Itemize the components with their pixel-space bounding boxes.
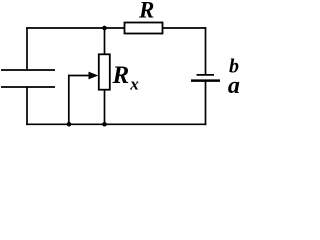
capacitor C top plate xyxy=(1,69,55,71)
node junction bottom left (dot, wiper lead) xyxy=(67,122,72,127)
wiper arrowhead of rheostat Rx xyxy=(89,72,99,80)
wiper arrow shaft of rheostat Rx xyxy=(69,75,91,77)
battery cell short thin plate (terminal b) xyxy=(197,74,215,76)
wire right side upper (to battery plate b) xyxy=(205,27,207,75)
node junction top (dot) xyxy=(102,26,107,31)
wire top rail left segment (top-left corner to resistor R) xyxy=(26,27,124,29)
svg-text:x: x xyxy=(129,75,139,94)
wire left side lower (capacitor bottom plate to bottom rail) xyxy=(26,87,28,125)
battery cell long thick plate (terminal a) xyxy=(191,79,220,82)
svg-text:R: R xyxy=(112,62,130,89)
resistor R xyxy=(125,23,163,34)
rheostat Rx (resistor body) xyxy=(99,54,110,89)
wire bottom rail xyxy=(26,123,206,125)
wire Rx bottom lead to bottom rail xyxy=(104,90,106,125)
wire left side upper (to capacitor top plate) xyxy=(26,27,28,70)
capacitor C bottom plate xyxy=(1,86,55,88)
node junction bottom (dot, Rx lead) xyxy=(102,122,107,127)
wire wiper lead down to bottom rail xyxy=(68,75,70,125)
wire top rail right segment (resistor R to top-right corner) xyxy=(163,27,207,29)
svg-text:a: a xyxy=(228,73,240,99)
wire right side lower (battery plate a to bottom rail) xyxy=(205,81,207,126)
wire from top node down to rheostat Rx xyxy=(104,28,106,54)
svg-text:R: R xyxy=(138,0,154,23)
